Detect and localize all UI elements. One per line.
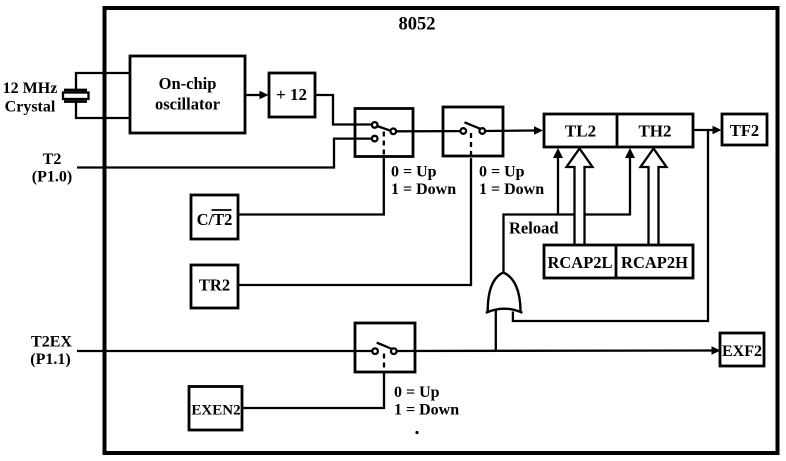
OR gate G1	[486, 273, 523, 313]
hollow arrow RCAP2H to TH2	[641, 149, 667, 247]
svg-text:1 = Down: 1 = Down	[391, 181, 456, 198]
block TL2 / TH2	[544, 114, 693, 147]
svg-text:Crystal: Crystal	[5, 99, 56, 116]
wire overflow down to OR gate input	[513, 131, 708, 321]
reload arrow into TL2	[553, 148, 563, 215]
reload arrow into TH2	[625, 148, 635, 216]
svg-text:12 MHz: 12 MHz	[3, 80, 58, 97]
block RCAP2L / RCAP2H	[544, 245, 693, 278]
label 0=Up 1=Down (SW2)	[479, 164, 544, 199]
svg-text:+ 12: + 12	[276, 85, 307, 104]
wire OR gate left input from T2EX line	[495, 309, 497, 351]
label T2EX (P1.1)	[30, 334, 72, 369]
svg-text:8052: 8052	[399, 15, 436, 35]
wire TH2 to TF2 with arrowhead	[693, 126, 722, 135]
label 0=Up 1=Down (SW1)	[391, 164, 456, 199]
wire divider output to switch SW1 top input	[315, 95, 371, 125]
svg-text:1 = Down: 1 = Down	[479, 181, 544, 198]
svg-text:oscillator: oscillator	[155, 95, 220, 114]
svg-text:TL2: TL2	[565, 122, 596, 141]
svg-text:C/T2: C/T2	[197, 210, 233, 229]
wire SW2 output to TL2 with arrowhead	[485, 126, 543, 135]
wire SW3 output to EXF2 with arrowhead	[397, 346, 721, 355]
wire T2EX line into SW3	[77, 350, 372, 352]
wire EXEN2 to SW3 control	[242, 376, 384, 408]
svg-text:RCAP2L: RCAP2L	[547, 253, 612, 272]
svg-text:1 = Down: 1 = Down	[394, 402, 459, 419]
label 0=Up 1=Down (SW3)	[394, 384, 459, 419]
svg-text:0 = Up: 0 = Up	[391, 164, 437, 181]
svg-text:0 = Up: 0 = Up	[394, 384, 440, 401]
svg-text:RCAP2H: RCAP2H	[621, 253, 688, 272]
svg-text:0 = Up: 0 = Up	[479, 164, 525, 181]
wire C/T2 to SW1 control	[238, 158, 384, 215]
svg-text:EXF2: EXF2	[722, 343, 762, 360]
block C/T2 flag	[191, 195, 238, 239]
svg-text:(P1.1): (P1.1)	[30, 351, 70, 368]
label 12 MHz Crystal	[3, 80, 58, 116]
block EXEN2 flag	[189, 387, 242, 431]
wire reload line from OR output	[504, 215, 631, 273]
block EXF2 flag	[720, 333, 764, 366]
svg-text:T2: T2	[43, 151, 62, 168]
svg-text:Reload: Reload	[509, 219, 559, 238]
svg-text:TR2: TR2	[199, 276, 230, 295]
wire SW1 output to SW2 input	[396, 130, 460, 132]
svg-text:T2EX: T2EX	[31, 334, 72, 351]
switch SW3 (EXEN2 enable)	[355, 323, 415, 376]
crystal Y1	[63, 90, 89, 102]
wire T2 input to switch SW1 bottom input	[77, 139, 371, 168]
wire crystal bottom to oscillator	[76, 102, 130, 119]
svg-text:TH2: TH2	[638, 122, 671, 141]
wire TR2 to SW2 control	[238, 158, 471, 285]
svg-text:(P1.0): (P1.0)	[32, 168, 72, 185]
stray dot artifact	[415, 431, 418, 434]
wire crystal top to oscillator	[76, 73, 130, 90]
switch SW1 (C/T2 select)	[355, 109, 413, 159]
svg-text:On-chip: On-chip	[159, 74, 217, 93]
label T2 (P1.0)	[32, 151, 72, 185]
block divide-by-12	[269, 73, 315, 117]
switch SW2 (TR2 run control)	[443, 107, 503, 158]
block on-chip oscillator	[130, 56, 245, 133]
block TF2 flag	[722, 114, 767, 145]
svg-text:EXEN2: EXEN2	[191, 403, 240, 419]
hollow arrow RCAP2L to TL2	[567, 149, 593, 247]
wire oscillator to divider with arrowhead	[245, 91, 269, 100]
svg-text:TF2: TF2	[730, 121, 759, 140]
block TR2 flag	[191, 265, 238, 308]
